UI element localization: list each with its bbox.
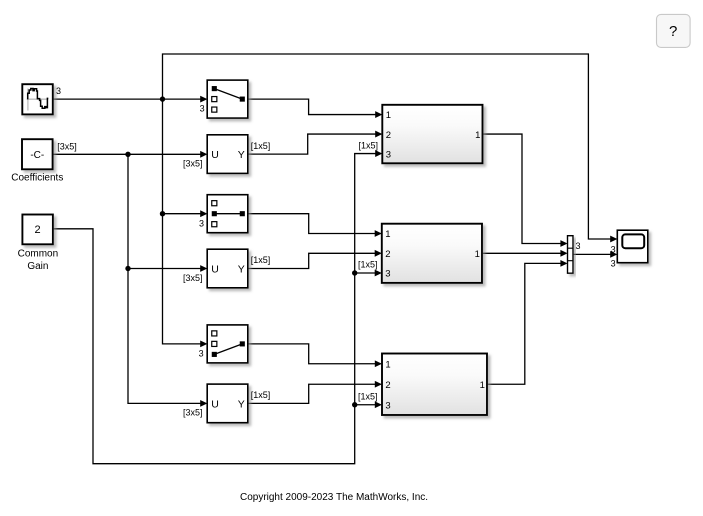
svg-text:U: U [211,398,219,410]
svg-text:[1x5]: [1x5] [358,392,378,402]
block: switch2 (selects input 2) [207,195,248,233]
block: scope [617,230,648,263]
wire: subsystem1 output to mux input1 [483,134,568,247]
wire: coefficients output to selector1 [53,151,208,158]
wire: subsystem2 output to mux input2 [482,250,568,257]
node: junction to subsystem2 port3 [352,270,357,275]
svg-text:U: U [211,149,219,161]
wire: branch right to switch2 input [163,210,208,217]
wire: branch down to switch2 and switch3 [163,99,208,347]
svg-text:1: 1 [475,249,480,260]
svg-text:1: 1 [475,130,480,141]
svg-text:?: ? [669,23,677,40]
block: switch1 (selects input 1) [207,80,248,118]
node: junction to subsystem3 port3 [352,402,357,407]
wire: branch to subsystem3 port3 [355,401,382,408]
svg-text:Coefficients: Coefficients [11,173,63,184]
node: junction on coefficients wire [125,152,130,157]
wire: signal generator output to switch1 [53,96,208,103]
wire: common gain long route to subsystem1 port3 [53,150,383,464]
wire: selector3 output to subsystem3 port2 [248,381,382,404]
svg-text:[3x5]: [3x5] [183,273,203,283]
svg-text:Gain: Gain [27,261,48,272]
svg-text:Y: Y [238,398,245,410]
wire: selector1 output to subsystem1 port2 [248,131,383,154]
wire: branch to subsystem2 port3 [355,270,382,277]
wire: switch2 output to subsystem2 port1 [248,214,382,237]
wire: switch1 output to subsystem1 port1 [248,99,383,118]
svg-text:3: 3 [611,259,616,269]
svg-text:3: 3 [199,348,204,358]
svg-text:1: 1 [386,110,391,121]
wire: selector2 output to subsystem2 port2 [248,250,382,269]
svg-text:1: 1 [385,229,390,240]
svg-text:3: 3 [611,245,616,255]
svg-text:2: 2 [385,380,390,391]
node: junction to selector2 [125,266,130,271]
block: selector2 U->Y [207,249,248,288]
block: Common Gain constant [22,215,53,245]
svg-text:3: 3 [385,400,390,411]
wire: switch3 output to subsystem3 port1 [248,344,382,367]
svg-text:3: 3 [56,86,61,96]
svg-text:Common: Common [18,249,59,260]
block: subsystem 2 [382,224,482,283]
block: mux [568,236,574,274]
svg-text:3: 3 [386,149,391,160]
svg-text:2: 2 [35,224,41,236]
svg-text:U: U [211,263,219,275]
block: signal generator source [22,84,53,114]
wire: branch right to selector2 input [128,265,207,272]
svg-text:[1x5]: [1x5] [251,390,271,400]
wire: subsystem3 output to mux input3 [487,260,568,384]
node: junction to switch2 [160,211,165,216]
svg-text:Y: Y [238,149,245,161]
svg-text:1: 1 [480,380,485,391]
svg-text:[1x5]: [1x5] [251,255,271,265]
svg-text:1: 1 [385,359,390,370]
svg-text:3: 3 [576,241,581,251]
svg-text:-C-: -C- [30,150,44,161]
svg-text:2: 2 [386,130,391,141]
wire: mux output to scope input 2 [573,251,617,258]
block: subsystem 3 [382,354,487,416]
block: switch3 (selects input 3) [207,325,248,363]
svg-text:Y: Y [238,263,245,275]
control: help button [657,14,691,47]
svg-text:Copyright 2009-2023 The MathWo: Copyright 2009-2023 The MathWorks, Inc. [240,492,428,503]
block: selector3 U->Y [207,384,248,423]
svg-text:3: 3 [199,219,204,229]
svg-text:[3x5]: [3x5] [57,141,77,151]
svg-text:[3x5]: [3x5] [183,408,203,418]
wire: branch up over the top to scope input 1 [163,54,612,239]
svg-text:3: 3 [200,103,205,113]
svg-text:[3x5]: [3x5] [183,159,203,169]
block: selector1 U->Y [207,135,248,174]
svg-text:[1x5]: [1x5] [358,260,378,270]
svg-text:3: 3 [385,269,390,280]
block: Coefficients constant [22,139,53,169]
block: subsystem 1 [382,105,482,164]
svg-text:[1x5]: [1x5] [251,141,271,151]
svg-text:2: 2 [385,249,390,260]
svg-text:[1x5]: [1x5] [359,140,379,150]
node: junction on signal generator wire [160,96,165,101]
wire: coefficients branch down to selector3 [128,154,207,406]
